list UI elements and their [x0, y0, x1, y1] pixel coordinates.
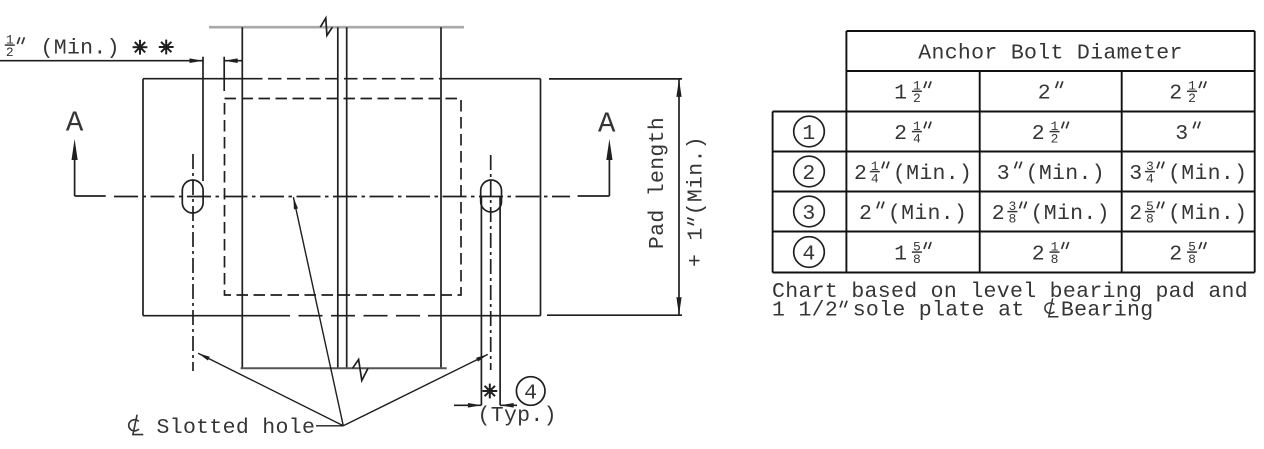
- svg-text:3: 3: [997, 162, 1010, 186]
- svg-text:3: 3: [802, 202, 815, 226]
- leader tail and branches: [198, 197, 488, 426]
- svg-text:2: 2: [992, 202, 1005, 226]
- svg-text:(Min.): (Min.): [893, 162, 972, 186]
- svg-text:2: 2: [6, 45, 14, 60]
- top break mark: [320, 18, 332, 35]
- callout circle 4: [516, 377, 545, 406]
- svg-text:Pad length: Pad length: [646, 117, 670, 249]
- bearing pad hidden outline (dashed rect): [225, 99, 462, 296]
- svg-text:+ 1: + 1: [685, 227, 709, 267]
- svg-text:A: A: [66, 107, 84, 140]
- right slot centerline (dash-dot): [490, 155, 492, 370]
- girder web line right: [346, 27, 348, 368]
- svg-text:8: 8: [1051, 252, 1059, 267]
- svg-text:(Min.): (Min.): [1168, 162, 1247, 186]
- svg-text:2: 2: [894, 122, 907, 146]
- masonry plate outline (solid rect, hidden segs dashed): [143, 79, 541, 316]
- svg-text:2: 2: [1032, 242, 1045, 266]
- svg-text:(Min.): (Min.): [685, 136, 709, 215]
- svg-text:4: 4: [1146, 171, 1154, 186]
- svg-text:2: 2: [1051, 131, 1059, 146]
- svg-text:(Typ.): (Typ.): [478, 404, 557, 428]
- svg-text:8: 8: [913, 252, 921, 267]
- svg-text:2: 2: [1169, 82, 1182, 106]
- svg-text:8: 8: [1146, 211, 1154, 226]
- svg-text:2: 2: [859, 202, 872, 226]
- svg-text:Bearing: Bearing: [1061, 298, 1154, 322]
- svg-text:4: 4: [524, 381, 537, 405]
- section marker A left: [75, 195, 106, 197]
- svg-text:8: 8: [1008, 211, 1016, 226]
- girder bottom flange edge (dark grey): [241, 367, 447, 369]
- svg-text:2: 2: [1032, 122, 1045, 146]
- svg-text:sole plate at: sole plate at: [853, 298, 1025, 322]
- svg-text:(Min.): (Min.): [41, 36, 120, 60]
- svg-text:2: 2: [1129, 202, 1142, 226]
- plus one inch min text (rotated): [685, 136, 709, 267]
- left slot centerline (dash-dot): [192, 154, 194, 371]
- svg-text:Slotted hole: Slotted hole: [157, 416, 316, 440]
- svg-text:2: 2: [854, 162, 867, 186]
- pad length dimension line: [678, 79, 680, 315]
- half-inch dimension text 1/2" (Min.) **: [5, 44, 15, 46]
- left slotted hole: [182, 180, 203, 213]
- svg-text:4: 4: [802, 242, 815, 266]
- girder left flange edge line: [241, 27, 243, 368]
- star dimension at bottom (typ): [454, 404, 481, 406]
- table: anchor bolt diameter: [773, 31, 1255, 273]
- right slot side extension lines: [480, 196, 482, 405]
- row number circles: [794, 116, 825, 147]
- svg-text:(Min.): (Min.): [1026, 162, 1105, 186]
- svg-text:(Min.): (Min.): [888, 202, 967, 226]
- svg-text:(Min.): (Min.): [1168, 202, 1247, 226]
- svg-text:1: 1: [894, 82, 907, 106]
- svg-text:3: 3: [1175, 122, 1188, 146]
- svg-text:(Min.): (Min.): [1031, 202, 1110, 226]
- svg-text:2: 2: [1169, 242, 1182, 266]
- svg-text:1: 1: [894, 242, 907, 266]
- svg-text:A: A: [598, 108, 616, 141]
- svg-text:4: 4: [871, 171, 879, 186]
- svg-text:1 1/2: 1 1/2: [772, 298, 838, 322]
- half-inch dimension: extension lines: [202, 57, 204, 181]
- note stars **: [133, 40, 148, 55]
- half-inch dimension line and arrows: [0, 60, 203, 62]
- girder right flange edge line: [440, 27, 442, 368]
- svg-text:2: 2: [913, 91, 921, 106]
- girder web line left: [337, 27, 339, 368]
- girder top flange edge (grey cut line): [209, 26, 464, 29]
- pad length dimension: extension lines: [549, 78, 682, 80]
- svg-text:2: 2: [1038, 82, 1051, 106]
- svg-text:8: 8: [1188, 252, 1196, 267]
- bottom break mark: [353, 360, 369, 381]
- svg-text:1: 1: [802, 122, 815, 146]
- svg-text:Anchor Bolt Diameter: Anchor Bolt Diameter: [918, 41, 1182, 65]
- pad length dimension text (rotated): [646, 117, 670, 249]
- svg-text:2: 2: [802, 162, 815, 186]
- svg-text:2: 2: [1188, 91, 1196, 106]
- section cut line A-A (dash-dot): [114, 196, 570, 198]
- right slotted hole: [481, 180, 502, 212]
- section marker A right: [578, 195, 610, 197]
- leader: centerline slotted hole label: [129, 415, 144, 435]
- svg-text:4: 4: [913, 131, 921, 146]
- svg-text:3: 3: [1129, 162, 1142, 186]
